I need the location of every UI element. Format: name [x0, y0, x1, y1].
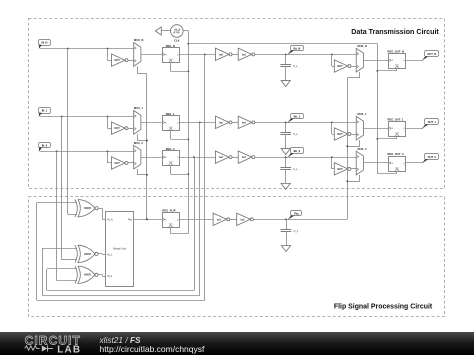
feedback drop Bit_0: [47, 157, 195, 290]
register REG_OUT_0: [388, 152, 406, 171]
svg-text:buf: buf: [242, 53, 246, 56]
svg-text:REG_0: REG_0: [166, 147, 175, 151]
xnor gate XNOR_0: [75, 266, 98, 283]
wire REG_0 Q: [179, 156, 215, 158]
svg-text:REG_OUT_N: REG_OUT_N: [388, 49, 404, 53]
ground row 0: [281, 169, 290, 189]
svg-text:Bit_1: Bit_1: [294, 114, 301, 118]
svg-text:IN_0: IN_0: [107, 275, 113, 278]
svg-text:XNOR: XNOR: [84, 207, 91, 210]
svg-text:NOT: NOT: [115, 59, 121, 62]
wire MUX_1 out: [141, 122, 162, 124]
mux right MUX_0: [356, 147, 367, 175]
buffer U4: [238, 116, 255, 128]
ground flip: [281, 232, 290, 252]
ground row 1: [281, 135, 290, 155]
svg-text:MUX_0: MUX_0: [358, 147, 367, 151]
wire Mystic out to REG_FLIP: [134, 218, 163, 220]
svg-text:MUX_B: MUX_B: [358, 44, 367, 48]
mux right MUX_B: [356, 44, 367, 72]
wire buf: [232, 157, 238, 159]
capacitor C_L row N: [280, 54, 298, 68]
node flag Flip: [288, 211, 302, 220]
REG_FLIP clock wire: [171, 228, 189, 234]
mux right MUX_1: [356, 112, 367, 140]
svg-text:MUX_0: MUX_0: [134, 141, 143, 145]
svg-text:NOT: NOT: [337, 133, 343, 136]
Flip Signal Processing Circuit enclosure (dashed): [29, 197, 445, 317]
mux right select: [347, 175, 360, 182]
wire MUX_0 out: [141, 157, 162, 159]
wire REG_N Q: [179, 53, 215, 55]
subcircuit Mystic Unit: [106, 212, 134, 287]
REG_OUT_0 clock wire: [377, 171, 397, 173]
buffer flip 2: [237, 213, 254, 225]
svg-text:OUT_N: OUT_N: [427, 52, 436, 56]
svg-text:Mystic Unit: Mystic Unit: [113, 247, 126, 251]
clock horizontal branch: [188, 43, 377, 45]
wire buf: [232, 54, 238, 56]
svg-text:C_L: C_L: [293, 65, 298, 68]
node flag OUT_1: [422, 119, 439, 129]
node flag IN_0: [39, 143, 51, 152]
svg-text:NOT: NOT: [115, 162, 121, 165]
select vertical left (Flip to MUX_N/1/0): [146, 74, 148, 221]
svg-text:REG_1: REG_1: [166, 112, 175, 116]
wire IN_1 drop to XNOR: [62, 117, 77, 260]
wire buf out Bit_N: [255, 53, 356, 55]
svg-text:MUX_1: MUX_1: [358, 112, 367, 116]
buffer U3: [215, 116, 232, 128]
wire IN_N main: [40, 48, 134, 50]
svg-text:XNOR: XNOR: [84, 274, 91, 277]
node flag OUT_0: [422, 154, 439, 164]
feedback drop Bit_1: [42, 122, 200, 295]
buffer U2: [238, 48, 255, 60]
Data Transmission Circuit enclosure (dashed): [29, 19, 445, 189]
node flag OUT_N: [422, 51, 439, 61]
mux MUX_0 select wire: [137, 169, 147, 175]
svg-text:NOT: NOT: [337, 65, 343, 68]
svg-text:http://circuitlab.com/chnqysf: http://circuitlab.com/chnqysf: [100, 344, 206, 354]
node flag Bit_N: [287, 46, 303, 55]
REG_1 clock wire: [171, 131, 189, 140]
svg-text:IN_0: IN_0: [42, 143, 48, 147]
node flag IN_1: [39, 108, 51, 117]
REG_N clock wire: [171, 63, 189, 72]
mux MUX_N select wire: [137, 66, 147, 73]
register REG_N: [163, 44, 180, 63]
wire mux right out: [363, 60, 388, 62]
wire buf out Bit_0: [255, 156, 356, 158]
svg-text:REG_OUT_0: REG_OUT_0: [388, 152, 404, 156]
REG_0 clock wire: [171, 166, 189, 175]
inverter NOT right N: [332, 54, 357, 72]
wire IN_1 main: [40, 116, 134, 118]
svg-text:IN_1: IN_1: [42, 109, 48, 113]
ground row N: [281, 67, 290, 87]
svg-text:CLK: CLK: [174, 39, 180, 43]
svg-text:REG_N: REG_N: [166, 44, 175, 48]
clock vertical right: [376, 44, 378, 174]
wire XNOR_1 out: [98, 254, 106, 255]
clock vertical left: [187, 31, 189, 234]
mux right select: [347, 140, 360, 146]
svg-text:REG_FLIP: REG_FLIP: [162, 208, 175, 212]
svg-text:buf: buf: [240, 218, 244, 221]
node flag Bit_0: [287, 148, 303, 158]
wire XNOR_N out: [98, 208, 106, 219]
wire mux right out: [363, 162, 388, 164]
wire IN_0 main: [40, 150, 134, 152]
xnor gate XNOR_1: [75, 245, 98, 262]
svg-text:buf: buf: [219, 121, 223, 124]
mux MUX_1: [134, 106, 144, 134]
svg-text:buf: buf: [219, 156, 223, 159]
wire REG_OUT_1 Q: [406, 128, 424, 130]
wire XNOR_0 out: [98, 275, 106, 277]
buffer flip 1: [213, 213, 230, 225]
feedback drop Bit_N: [37, 54, 205, 300]
svg-text:OUT_1: OUT_1: [428, 120, 437, 124]
mux MUX_1 select wire: [137, 134, 147, 140]
wire IN_N drop to XNOR: [68, 49, 77, 215]
wire flip out: [253, 218, 347, 220]
buffer U1: [215, 48, 232, 60]
node flag CLK (left arrow): [155, 27, 170, 35]
wire clock to vertical: [183, 30, 188, 32]
inverter NOT right 1: [332, 122, 357, 140]
svg-text:C_L: C_L: [293, 168, 298, 171]
inverter NOT_0: [108, 151, 134, 169]
svg-text:IN_N: IN_N: [107, 218, 113, 221]
wire REG_1 Q: [179, 121, 215, 123]
register REG_FLIP: [162, 208, 179, 227]
wire REG_FLIP Q: [179, 219, 213, 221]
node flag Bit_1: [287, 114, 303, 123]
REG_OUT_N clock wire: [377, 69, 397, 71]
mux right select: [347, 72, 360, 78]
svg-text:Flip: Flip: [128, 218, 133, 221]
inverter NOT_1: [108, 117, 134, 135]
svg-text:C_L: C_L: [294, 230, 299, 233]
inverter NOT right 0: [332, 157, 357, 175]
svg-text:buf: buf: [242, 156, 246, 159]
clock source V1: [171, 25, 184, 43]
wire: [230, 219, 237, 221]
inverter NOT_N: [108, 49, 134, 67]
capacitor C_L row 0: [280, 157, 298, 171]
svg-text:Bit_N: Bit_N: [293, 46, 300, 50]
svg-text:Flip: Flip: [294, 211, 299, 215]
REG_OUT_1 clock wire: [377, 137, 397, 139]
capacitor C_L flip: [281, 219, 299, 233]
wire buf: [232, 122, 238, 124]
svg-text:MUX_N: MUX_N: [134, 38, 143, 42]
svg-text:C_L: C_L: [293, 133, 298, 136]
svg-text:NOT: NOT: [115, 127, 121, 130]
wire mux right out: [363, 128, 388, 130]
svg-text:buf: buf: [217, 218, 221, 221]
svg-text:Data Transmission Circuit: Data Transmission Circuit: [351, 28, 439, 36]
mux MUX_0: [134, 141, 144, 169]
svg-text:IN_N: IN_N: [41, 41, 47, 45]
svg-text:OUT_0: OUT_0: [428, 155, 437, 159]
select vertical right (Flip to MUX_B/1/0): [346, 78, 348, 220]
svg-text:XNOR: XNOR: [84, 253, 91, 256]
svg-text:Bit_0: Bit_0: [294, 149, 301, 153]
wire buf out Bit_1: [255, 121, 356, 123]
buffer U5: [215, 151, 232, 163]
register REG_1: [163, 112, 180, 131]
svg-text:Flip Signal Processing Circuit: Flip Signal Processing Circuit: [334, 303, 433, 310]
register REG_0: [163, 147, 180, 166]
wire REG_OUT_N Q: [406, 60, 424, 62]
wire MUX_N out: [141, 54, 162, 56]
svg-text:LAB: LAB: [57, 345, 81, 355]
xnor gate XNOR_N: [75, 200, 98, 217]
capacitor C_L row 1: [280, 122, 298, 136]
buffer U6: [238, 151, 255, 163]
wire IN_0 drop to XNOR: [57, 151, 77, 280]
wire REG_OUT_0 Q: [406, 162, 424, 164]
svg-text:buf: buf: [242, 121, 246, 124]
svg-text:buf: buf: [219, 53, 223, 56]
CircuitLab logo: [0, 332, 474, 355]
svg-text:MUX_1: MUX_1: [134, 106, 143, 110]
node flag IN_N: [39, 40, 51, 49]
register REG_OUT_1: [388, 117, 406, 136]
svg-text:IN_1: IN_1: [107, 253, 113, 256]
svg-text:REG_OUT_1: REG_OUT_1: [388, 117, 404, 121]
register REG_OUT_N: [388, 49, 406, 68]
svg-text:NOT: NOT: [337, 168, 343, 171]
mux MUX_N: [134, 38, 144, 66]
